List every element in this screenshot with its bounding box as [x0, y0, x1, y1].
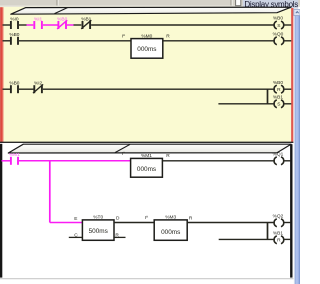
svg-text:D: D	[116, 215, 120, 221]
svg-text:%B0: %B0	[9, 81, 19, 87]
timer block %M1	[122, 151, 171, 177]
contact %B0 (NO)	[9, 81, 19, 94]
svg-text:000ms: 000ms	[137, 46, 156, 53]
svg-text:R: R	[166, 153, 170, 159]
wire to timer (magenta)	[19, 160, 131, 162]
wire coil to rail	[283, 222, 290, 224]
svg-text:%M3: %M3	[165, 214, 176, 220]
wire coil to rail	[283, 88, 291, 90]
contact %I2 (NC)	[33, 81, 43, 94]
wire to timer	[19, 40, 131, 42]
svg-text:%I2: %I2	[34, 81, 43, 87]
wire timer to coil	[162, 160, 274, 162]
right power rail network 1 (red)	[291, 8, 294, 142]
wire (magenta)	[43, 24, 58, 26]
network 1 header band	[11, 7, 291, 14]
wire coil to rail	[283, 160, 290, 162]
branch wire	[218, 103, 274, 105]
svg-text:%I0: %I0	[10, 16, 19, 22]
label Display symbols (highlighted)	[243, 0, 298, 9]
toolbar background strip	[0, 0, 300, 7]
C input stub	[69, 236, 83, 238]
timer block %M0	[122, 33, 171, 58]
contact %I0 (NO)	[10, 16, 19, 29]
coil %B0 (S)	[273, 16, 284, 29]
svg-text:%T0: %T0	[93, 215, 103, 221]
svg-text:%B0: %B0	[273, 16, 283, 22]
wire %T0 D to %M3	[114, 222, 154, 224]
boundary line between networks	[0, 141, 294, 143]
coil %Q2	[273, 213, 284, 226]
svg-text:R: R	[189, 216, 193, 222]
wire to coil	[91, 24, 275, 26]
svg-text:500ms: 500ms	[89, 228, 108, 235]
wire coil to rail	[283, 238, 290, 240]
wire rail to contact	[3, 40, 11, 42]
svg-text:%M1: %M1	[9, 152, 20, 158]
branch wire	[219, 238, 275, 240]
vertical branch connector	[267, 89, 269, 104]
vertical branch wire (magenta)	[49, 161, 51, 223]
contact %M1 (NO, magenta)	[9, 152, 20, 165]
wire	[19, 88, 34, 90]
toolbar groove separator 1	[57, 0, 58, 6]
svg-text:%M0: %M0	[141, 33, 152, 39]
wire (powered magenta)	[27, 24, 34, 26]
wire rail to contact	[3, 88, 11, 90]
svg-text:%Q0: %Q0	[273, 31, 284, 37]
R output stub	[114, 236, 126, 238]
coil %B1 (S)	[273, 94, 284, 107]
contact %B1 (NC)	[81, 16, 91, 29]
network 2 header band	[8, 144, 291, 153]
coil %Q0	[273, 31, 284, 44]
toolbar groove separator 2	[231, 0, 232, 6]
svg-text:S: S	[277, 23, 280, 29]
vertical scrollbar	[293, 10, 300, 284]
svg-text:%B1: %B1	[81, 16, 91, 22]
svg-text:%B1: %B1	[273, 231, 283, 237]
branch elbow wire (magenta)	[50, 222, 83, 224]
wire rail to contact (magenta)	[2, 160, 11, 162]
svg-text:R: R	[277, 87, 281, 93]
svg-text:%B0: %B0	[9, 32, 19, 38]
svg-text:%B0: %B0	[273, 80, 283, 86]
wire (magenta then black)	[67, 24, 74, 26]
wire coil to rail	[283, 40, 291, 42]
right power rail network 2 (black)	[290, 144, 292, 277]
wire rail to contact %I0	[3, 24, 11, 26]
svg-text:%Q2: %Q2	[273, 213, 284, 219]
left power rail network 2 (black)	[0, 144, 2, 278]
svg-text:%M1: %M1	[141, 153, 152, 159]
coil %B1 (R)	[273, 231, 284, 244]
svg-text:E: E	[74, 216, 77, 222]
svg-text:S: S	[277, 102, 280, 108]
wire	[19, 24, 27, 26]
svg-text:000ms: 000ms	[137, 166, 156, 173]
contact %B0 (NC, magenta)	[57, 16, 67, 29]
svg-text:R: R	[277, 238, 281, 244]
coil %Q1	[273, 151, 284, 164]
network 2 white background	[0, 142, 294, 284]
wire %M3 to coil	[187, 222, 275, 224]
wire coil to rail	[283, 103, 291, 105]
timer block %T0	[74, 215, 120, 241]
contact %I1 (NO, magenta)	[34, 16, 43, 29]
wire timer to coil	[163, 40, 275, 42]
svg-text:R: R	[166, 34, 170, 40]
svg-text:%I1: %I1	[34, 16, 43, 22]
wire to coil	[43, 88, 275, 90]
svg-text:000ms: 000ms	[161, 229, 180, 236]
vertical branch connector	[267, 223, 269, 240]
left power rail network 1 (red)	[0, 7, 4, 143]
svg-text:%B0: %B0	[57, 16, 67, 22]
contact %B0 (NO)	[9, 32, 19, 45]
svg-text:%Q1: %Q1	[273, 151, 284, 157]
coil %B0 (R)	[273, 80, 284, 93]
network 1 yellow background	[0, 7, 294, 142]
svg-text:%B1: %B1	[273, 94, 283, 100]
checkbox Display symbols	[236, 0, 241, 6]
bottom area separator line	[0, 278, 294, 280]
timer block %M3	[145, 214, 193, 240]
wire coil to rail	[283, 24, 291, 26]
